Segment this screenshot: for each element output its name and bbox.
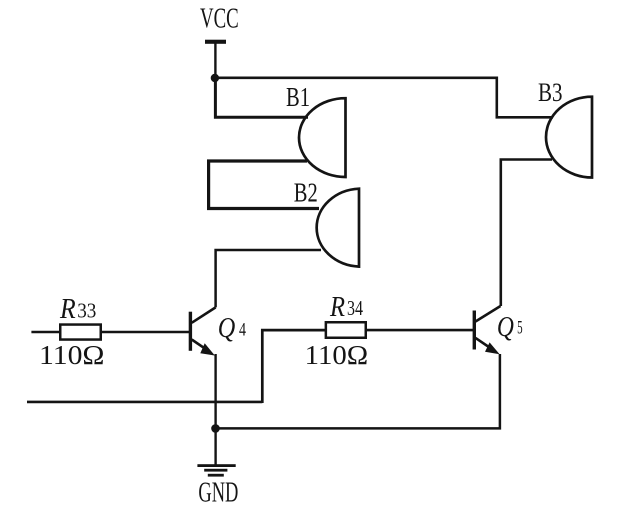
node ground junction (211, 424, 220, 433)
AND gate B3 (546, 97, 592, 178)
svg-text:GND: GND (198, 478, 238, 509)
wire R34 to Q5 base (366, 329, 474, 332)
transistor Q4 (190, 307, 215, 355)
svg-text:33: 33 (77, 299, 96, 323)
wire Q5 collector to B3 bottom input (501, 160, 552, 307)
label Q5 (497, 312, 523, 343)
svg-text:Q: Q (497, 312, 514, 343)
svg-text:110Ω: 110Ω (39, 339, 105, 370)
svg-text:110Ω: 110Ω (305, 339, 369, 370)
label R33 (59, 294, 96, 325)
AND gate B2 (317, 189, 359, 267)
svg-text:R: R (59, 294, 76, 325)
ground GND symbol (197, 464, 235, 476)
wire junction to GND symbol (214, 428, 216, 465)
svg-text:B2: B2 (294, 178, 318, 208)
svg-text:34: 34 (347, 296, 363, 320)
label R34 (329, 292, 363, 323)
wire bus riser to R34 (262, 330, 325, 403)
resistor R33 (60, 325, 101, 340)
wire VCC rail to B3 top input (215, 78, 553, 118)
wire R33 to Q4 base (101, 331, 190, 334)
wire Q5 emitter to ground rail (216, 354, 500, 428)
wire VCC stem (214, 42, 216, 78)
svg-text:B3: B3 (538, 78, 563, 107)
wire B1 bottom input to B2 top input (209, 161, 319, 209)
svg-text:4: 4 (239, 320, 246, 340)
wire B2 bottom input to Q4 collector (216, 250, 321, 307)
svg-text:R: R (329, 292, 345, 323)
wire VCC junction down to B1 top input (215, 78, 308, 117)
power VCC (200, 4, 239, 44)
AND gate B1 (299, 98, 346, 177)
node VCC rail junction (211, 74, 219, 82)
wire input lead to R33 (31, 331, 60, 334)
svg-text:B1: B1 (286, 82, 310, 112)
wire Q4 emitter down to ground junction (214, 354, 216, 428)
label Q4 (218, 313, 246, 344)
wire input bus (bottom left) (27, 401, 262, 404)
transistor Q5 (474, 306, 500, 354)
svg-text:5: 5 (517, 319, 523, 339)
svg-text:VCC: VCC (200, 4, 239, 35)
svg-text:Q: Q (218, 313, 236, 344)
resistor R34 (326, 322, 366, 338)
